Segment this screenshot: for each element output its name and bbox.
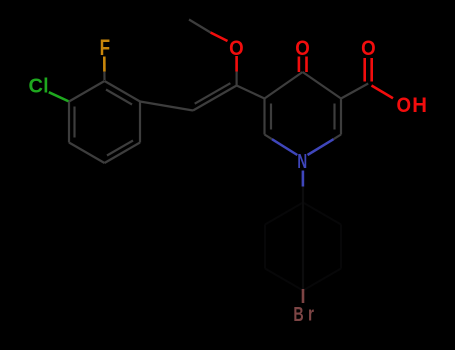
svg-text:F: F — [100, 36, 110, 61]
wire: ring bond Cb-E — [105, 143, 141, 164]
node O label (acid carbonyl) — [361, 37, 376, 60]
wire: F-C bond (gray lower half) — [103, 72, 105, 80]
svg-text:O: O — [295, 37, 310, 60]
svg-text:O: O — [229, 37, 244, 60]
wire: ring bond B-C — [105, 81, 141, 102]
wire: C4-C5 bond — [265, 72, 303, 99]
svg-text:r: r — [308, 302, 314, 325]
svg-text:l: l — [43, 75, 48, 98]
wire: N-phenyl bond (blue half) — [302, 171, 305, 187]
svg-text:C: C — [29, 75, 44, 97]
node OH label — [396, 94, 427, 117]
node N label — [297, 149, 307, 173]
wire: ring bond Cb-E inner double — [107, 141, 133, 156]
wire: ring bond A-B — [69, 81, 105, 102]
wire: C5-C6 bond — [263, 99, 265, 135]
wire: acid C=O double bond (red) — [365, 58, 372, 82]
svg-text:H: H — [412, 94, 427, 117]
wire: C4-C3 bond — [303, 72, 341, 99]
wire: C3-C2 inner double — [333, 104, 335, 130]
node F label — [100, 36, 110, 61]
wire: F-C bond (orange upper half) — [103, 57, 106, 72]
wire: ring bond D-A inner double — [73, 107, 75, 138]
4-bromophenyl ring C1'-C2'-C3'-C4'-C5'-C6' (near-invisible in source) — [265, 203, 341, 291]
wire: methoxy C-O bond (gray lower half) — [236, 72, 238, 86]
wire: C4'-Br bond (maroon) — [302, 289, 305, 303]
wire: ring bond C-Cb — [139, 102, 141, 143]
wire: C6-N bond (blue part) — [272, 139, 297, 155]
node O label (ketone) — [295, 37, 310, 60]
wire: C6-N bond (gray end) — [265, 135, 273, 140]
wire: ring bond D-A — [68, 102, 70, 143]
node O label (methoxy) — [229, 37, 244, 60]
wire: C5-V1 bond — [237, 86, 265, 99]
wire: methoxy C-O bond (red upper half) — [235, 56, 238, 72]
wire: vinyl C=C inner line — [195, 83, 231, 104]
wire: faint vertical connector N to Br — [302, 187, 304, 291]
wire: ring bond B-C inner double — [106, 90, 132, 105]
node Br label — [293, 302, 314, 325]
wire: vinyl C=C main line — [193, 86, 237, 111]
wire: C3-Cacid bond — [341, 84, 368, 99]
wire: C5-C6 inner double — [270, 104, 272, 130]
svg-text:O: O — [361, 37, 376, 60]
wire: C2-N bond (blue part) — [308, 139, 334, 155]
node Cl label — [29, 75, 49, 98]
wire: C2-N bond (gray end) — [334, 135, 342, 140]
wire: ring bond E-D — [69, 143, 105, 164]
wire: O-CH3 bond (gray half) — [189, 20, 211, 33]
wire: Cl-C bond (green) — [49, 92, 69, 101]
svg-text:N: N — [297, 149, 307, 173]
wire: C3-C2 bond — [340, 99, 342, 135]
svg-text:B: B — [293, 302, 303, 325]
wire: Cacid-OH bond (red) — [372, 86, 394, 99]
svg-text:O: O — [396, 94, 411, 117]
wire: aryl C to vinyl CH bond — [140, 102, 193, 111]
wire: O-CH3 bond (red half) — [211, 33, 228, 42]
ketone C4=O double bond (red) — [299, 57, 307, 73]
